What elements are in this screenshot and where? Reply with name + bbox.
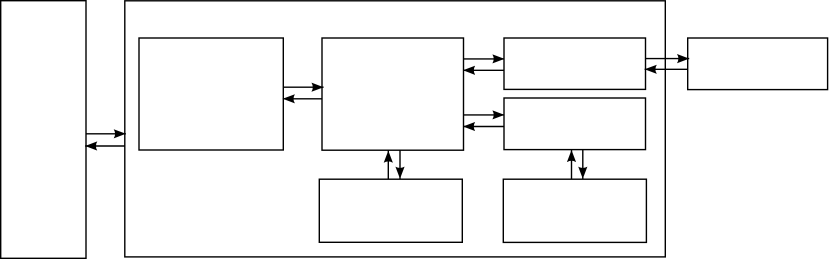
box O (outer enclosure) <box>125 1 666 257</box>
box C <box>504 38 646 89</box>
arrow B to C (right) <box>464 58 505 60</box>
arrow G to C (left) <box>645 68 688 70</box>
arrow F to D (up) <box>571 150 573 179</box>
box E <box>319 179 462 242</box>
arrow D to B (left) <box>463 126 504 128</box>
arrow D to F (down) <box>582 150 584 179</box>
box D <box>504 98 646 150</box>
arrow B to A (left) <box>283 98 322 100</box>
arrow L to O (right) <box>86 133 126 135</box>
box G (right external block) <box>688 38 828 90</box>
arrow O to L (left) <box>85 145 125 147</box>
arrow B to D (right) <box>464 114 505 116</box>
arrow B to E (down) <box>399 150 401 179</box>
arrow C to B (left) <box>463 69 504 71</box>
box L (left tall block) <box>1 1 86 259</box>
box A <box>139 38 283 150</box>
box B <box>322 38 464 150</box>
arrow A to B (right) <box>283 86 323 88</box>
box F <box>503 179 646 242</box>
arrow E to B (up) <box>387 151 389 180</box>
arrow C to G (right) <box>646 58 690 60</box>
